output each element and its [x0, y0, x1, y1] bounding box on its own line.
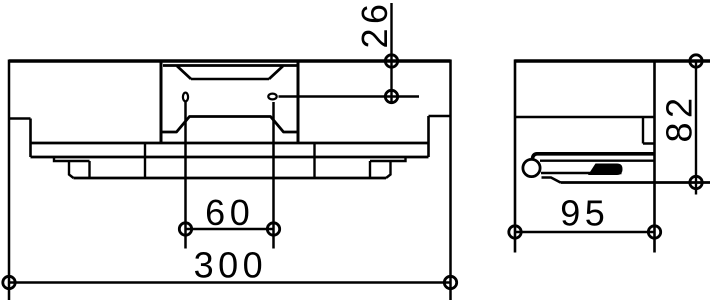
shelf line B: [31, 156, 429, 159]
dim 300 terminator right: [444, 276, 456, 288]
side view right edge / 95 extension right: [653, 60, 656, 253]
svg-text:95: 95: [560, 193, 609, 234]
bracket left edge: [160, 61, 163, 143]
backplate inner vertical right: [313, 143, 315, 178]
svg-text:82: 82: [659, 93, 700, 142]
side view bottom line / 82 extension bottom: [561, 181, 711, 184]
bracket cover lower line: [191, 78, 269, 81]
side view left edge / 95 extension left: [514, 60, 517, 253]
bracket cover chamfer left: [177, 66, 191, 79]
dim 82 line: [695, 61, 697, 195]
dim 60 line: [186, 228, 274, 231]
front view left step: [9, 119, 31, 158]
300 extension line right: [449, 60, 452, 301]
screw hole left: [183, 93, 188, 102]
clamp block (side): [588, 164, 623, 176]
svg-text:26: 26: [354, 0, 395, 49]
front view top edge: [9, 59, 451, 62]
dim 95 terminator right: [648, 226, 660, 238]
shelf front cap (side): [523, 159, 540, 176]
shelf plate bottom (side): [540, 160, 655, 162]
shelf plate top (side): [533, 154, 655, 159]
dim 60 extension left: [184, 102, 187, 249]
dim 300 terminator left: [3, 276, 15, 288]
dim 60 terminator right: [267, 223, 279, 235]
side view mid line: [515, 116, 655, 119]
front view left edge / 300 extension line left: [8, 60, 11, 301]
slot lower line (side): [541, 172, 622, 175]
bracket inner top line: [163, 64, 297, 67]
dim 26 line: [390, 3, 392, 102]
backplate inner vertical left: [144, 143, 146, 178]
front view right step: [429, 116, 451, 157]
shelf bottom line D: [74, 177, 387, 180]
dim 26 terminator bottom: [385, 90, 397, 102]
bracket right edge: [297, 61, 300, 143]
bracket cover bottom profile: [161, 117, 298, 133]
dim 26 leader line: [279, 95, 420, 97]
dim 82 terminator top: [690, 55, 702, 67]
right foot tab: [370, 157, 406, 178]
bracket cover chamfer right: [269, 66, 283, 79]
side view top edge / 82 extension top: [515, 59, 711, 62]
dim 95 line: [515, 231, 655, 234]
dim 95 terminator left: [509, 226, 521, 238]
hook under cap (side): [542, 178, 561, 183]
side view step pocket: [643, 117, 655, 144]
dim 82 terminator bottom: [690, 176, 702, 188]
left foot tab: [54, 157, 90, 178]
dim 300 line: [9, 281, 451, 284]
shelf top line A: [31, 142, 429, 145]
dim 60 extension right: [272, 102, 275, 249]
dim 60 terminator left: [179, 223, 191, 235]
svg-text:60: 60: [205, 192, 254, 233]
dim 26 terminator top: [385, 55, 397, 67]
svg-text:300: 300: [194, 245, 268, 286]
screw hole right: [268, 94, 276, 100]
